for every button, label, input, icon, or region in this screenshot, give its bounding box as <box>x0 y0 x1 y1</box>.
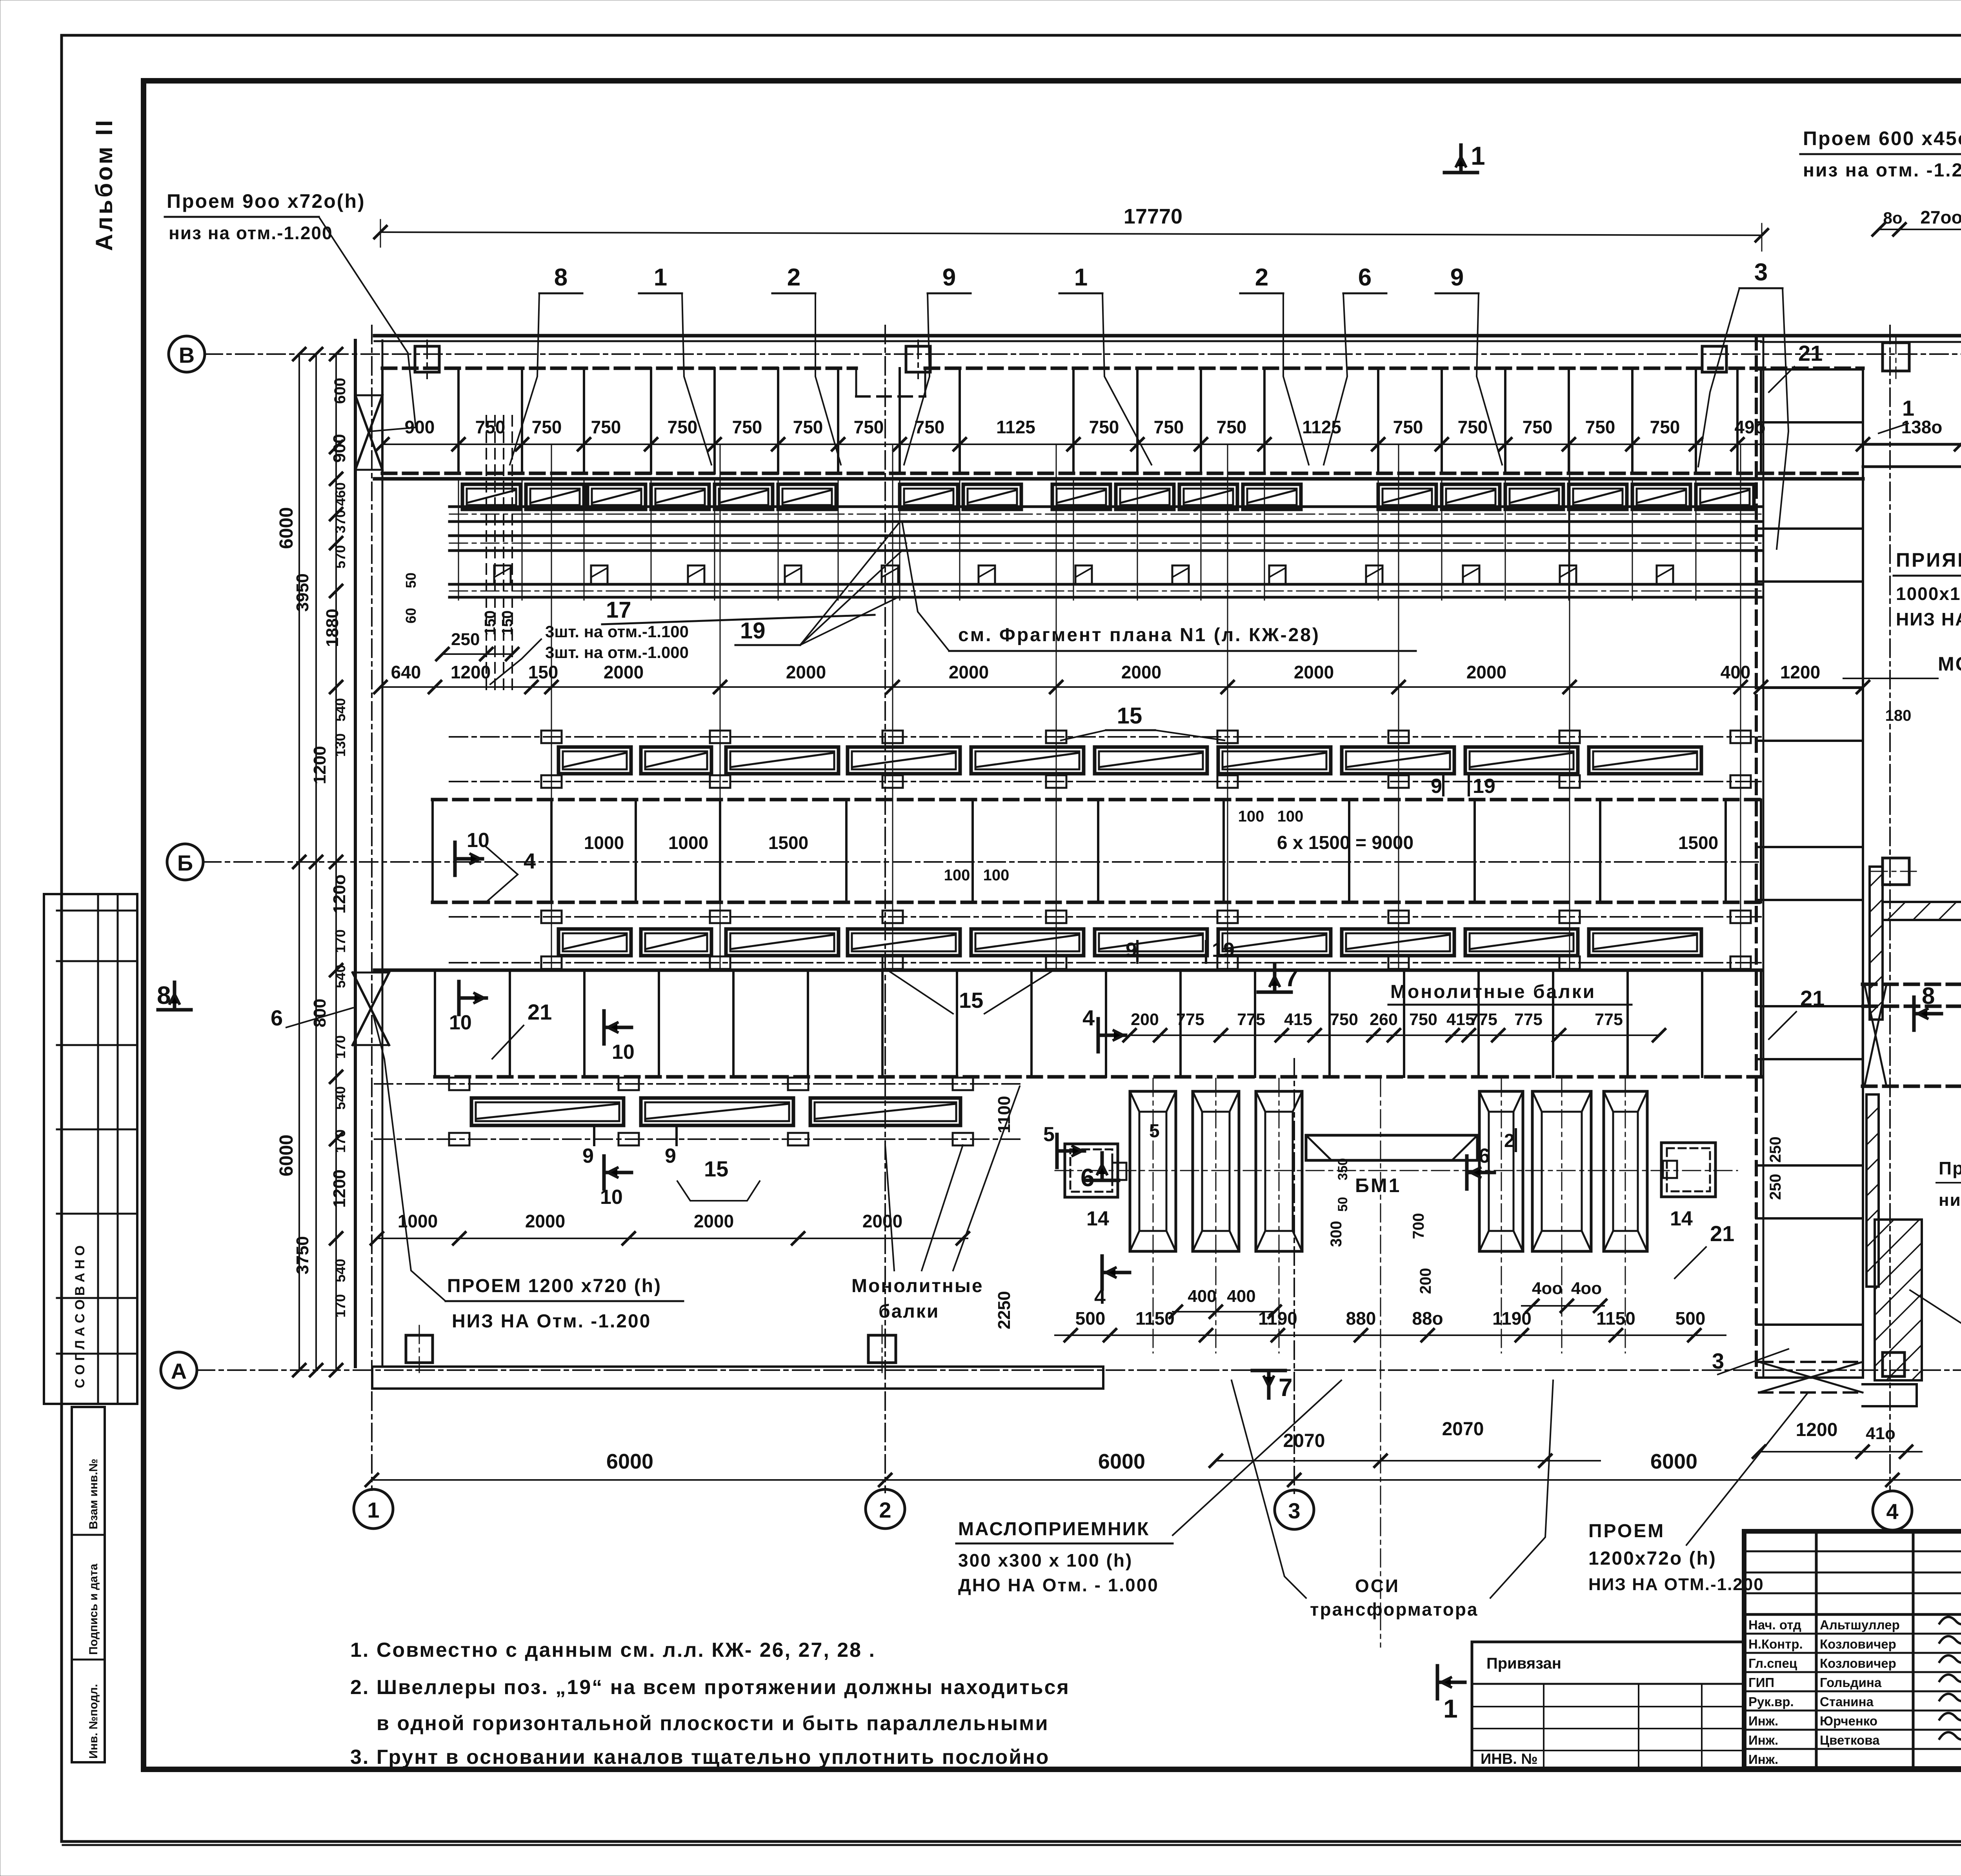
svg-text:350: 350 <box>1335 1158 1350 1180</box>
svg-text:10: 10 <box>449 1011 472 1034</box>
column base square 2 <box>868 1335 896 1363</box>
column square right wing 1 <box>1883 343 1909 371</box>
svg-text:50: 50 <box>1335 1197 1350 1212</box>
svg-text:10: 10 <box>600 1186 623 1209</box>
svg-text:100: 100 <box>1277 808 1304 825</box>
axis B circle <box>169 336 205 372</box>
svg-text:9: 9 <box>665 1145 676 1167</box>
svg-text:21: 21 <box>1800 986 1825 1011</box>
svg-text:2000: 2000 <box>525 1211 565 1231</box>
svg-text:Юрченко: Юрченко <box>1820 1714 1877 1728</box>
svg-text:4: 4 <box>524 849 536 873</box>
svg-text:775: 775 <box>1595 1010 1623 1029</box>
left vertical dimension lines <box>298 354 300 1370</box>
lower channel band cells <box>435 1075 1761 1079</box>
clamp chain below louver E <box>449 962 1761 963</box>
axis Bb horizontal chain <box>203 861 1761 863</box>
svg-text:2000: 2000 <box>1466 662 1506 682</box>
section mark 1 bottom <box>1436 1666 1439 1699</box>
svg-text:19: 19 <box>1473 775 1495 798</box>
channel rail 3 <box>449 583 1761 586</box>
title block name rows <box>1744 1633 1961 1635</box>
monolithic beam right wing left <box>1863 443 1961 446</box>
svg-text:6000: 6000 <box>1650 1450 1697 1473</box>
svg-text:1: 1 <box>367 1498 379 1522</box>
title block vertical dividers <box>1815 1531 1818 1769</box>
svg-text:1200: 1200 <box>451 662 491 682</box>
column base bottom-right 1 <box>1883 1352 1905 1376</box>
svg-text:Проем 9оо х72о(h): Проем 9оо х72о(h) <box>167 190 366 212</box>
svg-text:Привязан: Привязан <box>1486 1655 1561 1672</box>
svg-text:775: 775 <box>1176 1010 1204 1029</box>
svg-text:1. Совместно с данным см.: 1. Совместно с данным см. л.л. КЖ- 26, 2… <box>350 1639 876 1661</box>
svg-text:400: 400 <box>1188 1287 1216 1306</box>
bottom opening X with leader <box>1759 1361 1863 1363</box>
axis A circle <box>161 1352 197 1388</box>
column square top-right <box>1702 346 1726 372</box>
oil receiver left <box>1065 1144 1118 1197</box>
column base square 1 <box>406 1335 433 1363</box>
right wing bottom dashed wall <box>1863 1005 1961 1008</box>
svg-text:1200х72о (h): 1200х72о (h) <box>1588 1548 1717 1569</box>
clamp chain below louver F <box>375 1138 1020 1140</box>
left exterior wall <box>354 340 357 1367</box>
svg-text:9: 9 <box>942 264 956 291</box>
svg-text:Проем 12оох 12оо(h): Проем 12оох 12оо(h) <box>1939 1158 1961 1178</box>
svg-text:7: 7 <box>1279 1373 1293 1402</box>
svg-text:2000: 2000 <box>694 1211 734 1231</box>
svg-text:9: 9 <box>1126 939 1137 962</box>
svg-text:540: 540 <box>332 1259 348 1282</box>
svg-text:200: 200 <box>1131 1010 1159 1029</box>
svg-text:низ на отм. -1.200: низ на отм. -1.200 <box>1939 1191 1961 1210</box>
section mark 7 bottom <box>1252 1369 1285 1372</box>
clamp chain above middle band <box>449 736 1761 738</box>
svg-text:19: 19 <box>1212 939 1235 962</box>
section mark 5 <box>1055 1134 1059 1167</box>
transformer dim row 500 1150 1190 880 880 1190 1150 500 <box>1055 1334 1726 1336</box>
svg-text:750: 750 <box>1585 417 1615 437</box>
svg-text:3. Грунт в основании кан: 3. Грунт в основании каналов тщательно у… <box>350 1746 1050 1769</box>
svg-text:540: 540 <box>332 698 348 722</box>
svg-text:700: 700 <box>1410 1213 1427 1239</box>
svg-text:1100: 1100 <box>995 1096 1014 1133</box>
svg-text:в одной горизонтальной пл: в одной горизонтальной плоскости и быть … <box>377 1712 1049 1735</box>
svg-text:1880: 1880 <box>323 609 342 647</box>
svg-text:ИНВ. №: ИНВ. № <box>1481 1751 1538 1767</box>
svg-text:1: 1 <box>1902 396 1914 420</box>
svg-text:500: 500 <box>1675 1308 1706 1329</box>
svg-text:775: 775 <box>1469 1010 1497 1029</box>
svg-text:1125: 1125 <box>996 417 1035 437</box>
svg-text:Подпись и дата: Подпись и дата <box>87 1563 100 1655</box>
svg-text:180: 180 <box>1885 707 1912 724</box>
svg-text:100: 100 <box>1238 808 1264 825</box>
svg-text:МАСЛОПРИЕМНИК: МАСЛОПРИЕМНИК <box>958 1519 1150 1540</box>
svg-text:300: 300 <box>1328 1221 1345 1247</box>
svg-text:21: 21 <box>528 1000 552 1024</box>
svg-text:4оо: 4оо <box>1532 1279 1563 1298</box>
band 8 opening X left <box>1865 984 1886 1086</box>
svg-text:Гл.спец: Гл.спец <box>1748 1656 1797 1671</box>
svg-text:750: 750 <box>1217 417 1247 437</box>
band 8 labels <box>1912 997 1916 1030</box>
beam BM1 <box>1306 1135 1477 1160</box>
svg-text:750: 750 <box>1089 417 1119 437</box>
svg-text:1150: 1150 <box>1596 1308 1635 1329</box>
svg-text:Козловичер: Козловичер <box>1820 1656 1896 1671</box>
clamp chain above louver F <box>375 1083 1020 1085</box>
svg-text:21: 21 <box>1798 341 1823 365</box>
svg-text:Станина: Станина <box>1820 1694 1874 1709</box>
svg-text:750: 750 <box>1393 417 1423 437</box>
svg-text:750: 750 <box>854 417 884 437</box>
svg-text:В: В <box>179 343 195 367</box>
svg-text:9: 9 <box>1450 264 1464 291</box>
svg-text:НИЗ НА ОТМ.-1.200: НИЗ НА ОТМ.-1.200 <box>1588 1575 1764 1594</box>
band 8 cell dividers <box>1862 984 1864 1086</box>
svg-text:3шт. на отм.-1.100: 3шт. на отм.-1.100 <box>545 622 689 641</box>
hatched walls bottom-right quadrant <box>1866 1094 1879 1287</box>
svg-text:2: 2 <box>1255 264 1268 291</box>
svg-text:1000: 1000 <box>584 833 624 853</box>
svg-text:17770: 17770 <box>1124 205 1182 228</box>
svg-text:Б: Б <box>177 851 193 875</box>
svg-text:100: 100 <box>983 867 1010 884</box>
svg-text:2250: 2250 <box>995 1291 1014 1329</box>
svg-text:460: 460 <box>332 482 348 506</box>
svg-text:880: 880 <box>1346 1308 1376 1329</box>
svg-text:Нач. отд: Нач. отд <box>1748 1618 1801 1632</box>
vertical grid lines through rails <box>551 444 552 968</box>
svg-text:Козловичер: Козловичер <box>1820 1637 1896 1651</box>
svg-text:2: 2 <box>879 1498 891 1522</box>
svg-text:415: 415 <box>1284 1010 1312 1029</box>
svg-text:7: 7 <box>1284 963 1299 992</box>
svg-text:9: 9 <box>582 1145 594 1167</box>
axis B horizontal chain <box>204 353 1961 355</box>
section mark 6 left <box>1086 1179 1119 1182</box>
svg-text:150: 150 <box>528 662 558 682</box>
svg-text:А: А <box>171 1359 187 1383</box>
svg-text:570: 570 <box>332 545 348 569</box>
column square outside left of wing <box>1883 858 1909 885</box>
grid axis 3 vertical chain <box>1293 1059 1295 1495</box>
svg-text:400: 400 <box>1721 662 1751 682</box>
svg-text:НИЗ НА отм. -1.400: НИЗ НА отм. -1.400 <box>1896 609 1961 629</box>
svg-text:750: 750 <box>668 417 698 437</box>
axis A horizontal chain <box>196 1369 1961 1371</box>
svg-text:750: 750 <box>1458 417 1488 437</box>
left margin stamp column upper <box>44 894 137 1404</box>
left wall opening X upper <box>355 395 382 470</box>
section mark 10 left lower <box>457 982 461 1014</box>
svg-text:6: 6 <box>1479 1145 1490 1167</box>
svg-text:1200: 1200 <box>1796 1420 1838 1440</box>
svg-text:500: 500 <box>1075 1308 1106 1329</box>
svg-text:3950: 3950 <box>293 573 312 612</box>
svg-text:170: 170 <box>332 1035 348 1059</box>
svg-text:балки: балки <box>879 1301 939 1322</box>
svg-text:540: 540 <box>332 965 348 988</box>
svg-text:6: 6 <box>1358 264 1372 291</box>
svg-text:170: 170 <box>332 1294 348 1318</box>
svg-text:Инж.: Инж. <box>1748 1733 1778 1747</box>
svg-text:750: 750 <box>1523 417 1553 437</box>
svg-text:120о: 120о <box>330 874 349 914</box>
svg-text:750: 750 <box>591 417 621 437</box>
channel rail 1 <box>449 505 1761 508</box>
title block top rows <box>1744 1551 1961 1552</box>
svg-text:300 х300 х 100 (h): 300 х300 х 100 (h) <box>958 1550 1133 1571</box>
axis circle 1 <box>354 1489 393 1529</box>
svg-text:21: 21 <box>1710 1221 1734 1246</box>
svg-text:8о: 8о <box>1883 209 1902 227</box>
svg-text:750: 750 <box>793 417 823 437</box>
svg-text:900: 900 <box>330 434 349 463</box>
svg-text:400: 400 <box>1227 1287 1255 1306</box>
grid axis 1 vertical chain <box>371 325 373 1490</box>
svg-text:14: 14 <box>1670 1207 1693 1230</box>
svg-text:130: 130 <box>332 733 348 757</box>
svg-text:750: 750 <box>1409 1010 1437 1029</box>
svg-text:низ на отм.-1.200: низ на отм.-1.200 <box>169 223 333 243</box>
svg-text:1190: 1190 <box>1492 1308 1532 1329</box>
column square top-mid <box>906 346 930 372</box>
svg-text:250: 250 <box>451 630 480 649</box>
svg-text:150: 150 <box>482 611 498 635</box>
louver row F <box>471 1098 624 1125</box>
svg-text:3: 3 <box>1712 1349 1724 1373</box>
svg-text:750: 750 <box>732 417 762 437</box>
svg-text:100: 100 <box>944 867 970 884</box>
transformer channel left 3 <box>1256 1091 1302 1251</box>
svg-text:6 x 1500 = 9000: 6 x 1500 = 9000 <box>1277 833 1413 853</box>
svg-text:250: 250 <box>1767 1136 1784 1163</box>
lower band dimension labels <box>1130 1034 1659 1036</box>
svg-text:50: 50 <box>403 573 419 588</box>
left margin stamp column lower <box>72 1407 105 1762</box>
svg-text:3: 3 <box>1288 1498 1300 1523</box>
privyazan box <box>1472 1641 1744 1643</box>
svg-text:1: 1 <box>1471 141 1485 170</box>
svg-text:1200: 1200 <box>330 1169 349 1208</box>
svg-text:2: 2 <box>1504 1131 1515 1151</box>
grid axis 4 vertical chain <box>1889 325 1891 1490</box>
svg-text:Н.Контр.: Н.Контр. <box>1748 1637 1803 1651</box>
louver row under top band <box>462 484 520 509</box>
svg-text:15: 15 <box>704 1156 728 1181</box>
band 8 dashed outline <box>1863 983 1961 986</box>
lower band top wall line <box>375 969 1761 972</box>
axis circle 3 <box>1275 1490 1314 1529</box>
svg-text:15: 15 <box>1117 703 1142 729</box>
column square top-left <box>415 346 439 372</box>
top channel band dimension row <box>382 444 1961 445</box>
axis circle 4 <box>1873 1491 1912 1530</box>
svg-text:4: 4 <box>1886 1499 1898 1524</box>
svg-text:см. Фрагмент плана N1 (л.: см. Фрагмент плана N1 (л. КЖ-28) <box>958 625 1320 645</box>
svg-text:5: 5 <box>1043 1123 1055 1146</box>
svg-text:4оо: 4оо <box>1571 1279 1602 1298</box>
svg-text:150: 150 <box>499 611 516 635</box>
svg-text:6000: 6000 <box>1098 1450 1145 1473</box>
svg-text:2. Швеллеры поз. „19“ на в: 2. Швеллеры поз. „19“ на всем протяжении… <box>350 1676 1070 1699</box>
svg-text:8: 8 <box>554 264 568 291</box>
svg-text:2000: 2000 <box>604 662 644 682</box>
axis circle 2 <box>866 1489 905 1529</box>
dimension row 1000 2000 2000 2000 <box>377 1238 968 1239</box>
svg-text:2000: 2000 <box>949 662 989 682</box>
transformer channel right 1 <box>1479 1091 1523 1251</box>
svg-text:5: 5 <box>1149 1121 1160 1142</box>
svg-text:ПРОЕМ 1200 х720 (h): ПРОЕМ 1200 х720 (h) <box>447 1276 662 1296</box>
svg-text:Взам инв.№: Взам инв.№ <box>87 1459 100 1529</box>
top exterior wall <box>375 334 1761 338</box>
svg-text:1200: 1200 <box>1780 662 1820 682</box>
bottom dimension line 6000 segments <box>372 1479 1961 1481</box>
svg-text:низ на отм. -1.200: низ на отм. -1.200 <box>1803 160 1961 181</box>
grid axis 2 vertical chain <box>884 325 886 1492</box>
svg-text:4: 4 <box>1094 1286 1106 1309</box>
svg-text:900: 900 <box>405 417 435 437</box>
svg-text:3: 3 <box>1754 259 1768 286</box>
svg-text:МОНОЛИТНЫЕ: МОНОЛИТНЫЕ <box>1938 653 1961 675</box>
top channel band cell dividers <box>381 368 384 473</box>
svg-text:НИЗ НА Отм. -1.200: НИЗ НА Отм. -1.200 <box>452 1311 651 1332</box>
svg-text:Альбом II: Альбом II <box>91 118 117 251</box>
svg-text:775: 775 <box>1514 1010 1543 1029</box>
bottom trim arrow line <box>63 1844 1961 1846</box>
svg-text:3750: 3750 <box>293 1236 312 1274</box>
svg-text:Инж.: Инж. <box>1748 1714 1778 1728</box>
svg-text:750: 750 <box>915 417 945 437</box>
svg-text:27оо: 27оо <box>1920 207 1961 227</box>
top channel band outline <box>382 367 856 370</box>
svg-text:Альтшуллер: Альтшуллер <box>1820 1618 1900 1632</box>
foundation strip bottom-right 1 <box>1863 1383 1917 1385</box>
svg-text:10: 10 <box>467 829 489 852</box>
svg-text:1000: 1000 <box>668 833 708 853</box>
bracket symbol row <box>494 565 511 582</box>
svg-text:1000х1000 х1400(h): 1000х1000 х1400(h) <box>1896 584 1961 604</box>
svg-text:19: 19 <box>740 618 766 644</box>
channel rail 2 <box>449 534 1761 537</box>
middle channel band dividers <box>550 800 553 902</box>
svg-text:Монолитные балки: Монолитные балки <box>1390 982 1596 1002</box>
section mark 4 bottom <box>1101 1256 1104 1289</box>
svg-text:370: 370 <box>332 510 348 533</box>
svg-text:8: 8 <box>1922 983 1935 1009</box>
svg-text:41о: 41о <box>1866 1424 1896 1443</box>
svg-text:4: 4 <box>1082 1005 1095 1030</box>
svg-text:750: 750 <box>475 417 506 437</box>
section mark 6 right <box>1465 1156 1469 1189</box>
svg-text:ОСИ: ОСИ <box>1355 1576 1400 1596</box>
svg-text:1: 1 <box>654 264 667 291</box>
svg-text:2000: 2000 <box>786 662 826 682</box>
frame bottom line <box>144 1767 1961 1771</box>
svg-text:170: 170 <box>332 1129 348 1153</box>
louver row D <box>558 747 631 774</box>
svg-text:260: 260 <box>1370 1010 1398 1029</box>
svg-text:49о: 49о <box>1734 417 1765 437</box>
svg-text:6000: 6000 <box>606 1450 653 1473</box>
svg-text:2000: 2000 <box>1294 662 1334 682</box>
svg-text:ПРОЕМ: ПРОЕМ <box>1588 1521 1665 1542</box>
svg-text:1200: 1200 <box>310 746 329 784</box>
svg-text:1500: 1500 <box>768 833 808 853</box>
svg-text:9: 9 <box>1431 775 1442 798</box>
svg-text:1500: 1500 <box>1678 833 1718 853</box>
svg-text:750: 750 <box>1650 417 1680 437</box>
clamp chain above louver E <box>449 916 1761 918</box>
transformer channel left 1 <box>1130 1091 1176 1251</box>
svg-text:750: 750 <box>1330 1010 1358 1029</box>
svg-text:ПРИЯМОК: ПРИЯМОК <box>1896 549 1961 571</box>
svg-text:ДНО НА Отм. - 1.000: ДНО НА Отм. - 1.000 <box>958 1575 1159 1595</box>
louver row E <box>558 929 631 956</box>
svg-text:640: 640 <box>391 662 421 682</box>
svg-text:ГИП: ГИП <box>1748 1675 1774 1690</box>
svg-text:800: 800 <box>310 999 329 1027</box>
svg-text:88о: 88о <box>1412 1308 1443 1329</box>
dimension chain 640-1200-150-2000... <box>380 686 1863 688</box>
svg-text:6000: 6000 <box>276 1134 297 1176</box>
svg-text:2070: 2070 <box>1442 1419 1484 1440</box>
section mark 1 top <box>1444 171 1477 175</box>
svg-text:6: 6 <box>1081 1163 1095 1192</box>
svg-text:600: 600 <box>331 378 349 404</box>
svg-text:15: 15 <box>959 988 983 1013</box>
oil receiver right <box>1661 1143 1715 1197</box>
svg-text:17: 17 <box>606 597 631 623</box>
svg-text:Монолитные: Монолитные <box>851 1276 984 1296</box>
svg-text:60: 60 <box>403 608 419 624</box>
svg-text:Инж.: Инж. <box>1748 1752 1778 1767</box>
svg-text:250: 250 <box>1767 1174 1784 1200</box>
middle channel band outline <box>433 798 1761 802</box>
svg-text:750: 750 <box>532 417 562 437</box>
svg-text:2: 2 <box>787 264 800 291</box>
svg-text:1: 1 <box>1074 264 1088 291</box>
section mark 8 left <box>158 1008 191 1012</box>
svg-text:Инв. №подл.: Инв. №подл. <box>87 1684 100 1759</box>
svg-text:6: 6 <box>271 1005 283 1030</box>
axis Bb circle <box>167 844 203 880</box>
svg-text:14: 14 <box>1086 1207 1109 1230</box>
svg-text:Гольдина: Гольдина <box>1820 1675 1882 1690</box>
svg-text:1150: 1150 <box>1135 1308 1175 1329</box>
svg-text:Проем 600 х45о (h): Проем 600 х45о (h) <box>1803 127 1961 149</box>
svg-text:БМ1: БМ1 <box>1355 1174 1401 1196</box>
svg-text:6000: 6000 <box>276 507 297 549</box>
svg-text:8: 8 <box>157 981 171 1009</box>
transformer channel right 3 <box>1604 1091 1647 1251</box>
foundation strip left <box>372 1365 1103 1368</box>
column 21 cells <box>1756 368 1863 371</box>
left wall opening X lower <box>353 973 389 1045</box>
overall dimension 17770 <box>380 232 1762 235</box>
section 10 under louver F <box>602 1156 606 1189</box>
svg-text:10: 10 <box>612 1041 635 1063</box>
svg-text:С О Г Л А С О В А Н О: С О Г Л А С О В А Н О <box>73 1245 87 1388</box>
column 21 left wall <box>1755 336 1758 1376</box>
svg-text:750: 750 <box>1154 417 1184 437</box>
column 21 right wall <box>1862 368 1864 1376</box>
title block outer <box>1744 1531 1961 1769</box>
transformer channel right 2 <box>1532 1091 1591 1251</box>
